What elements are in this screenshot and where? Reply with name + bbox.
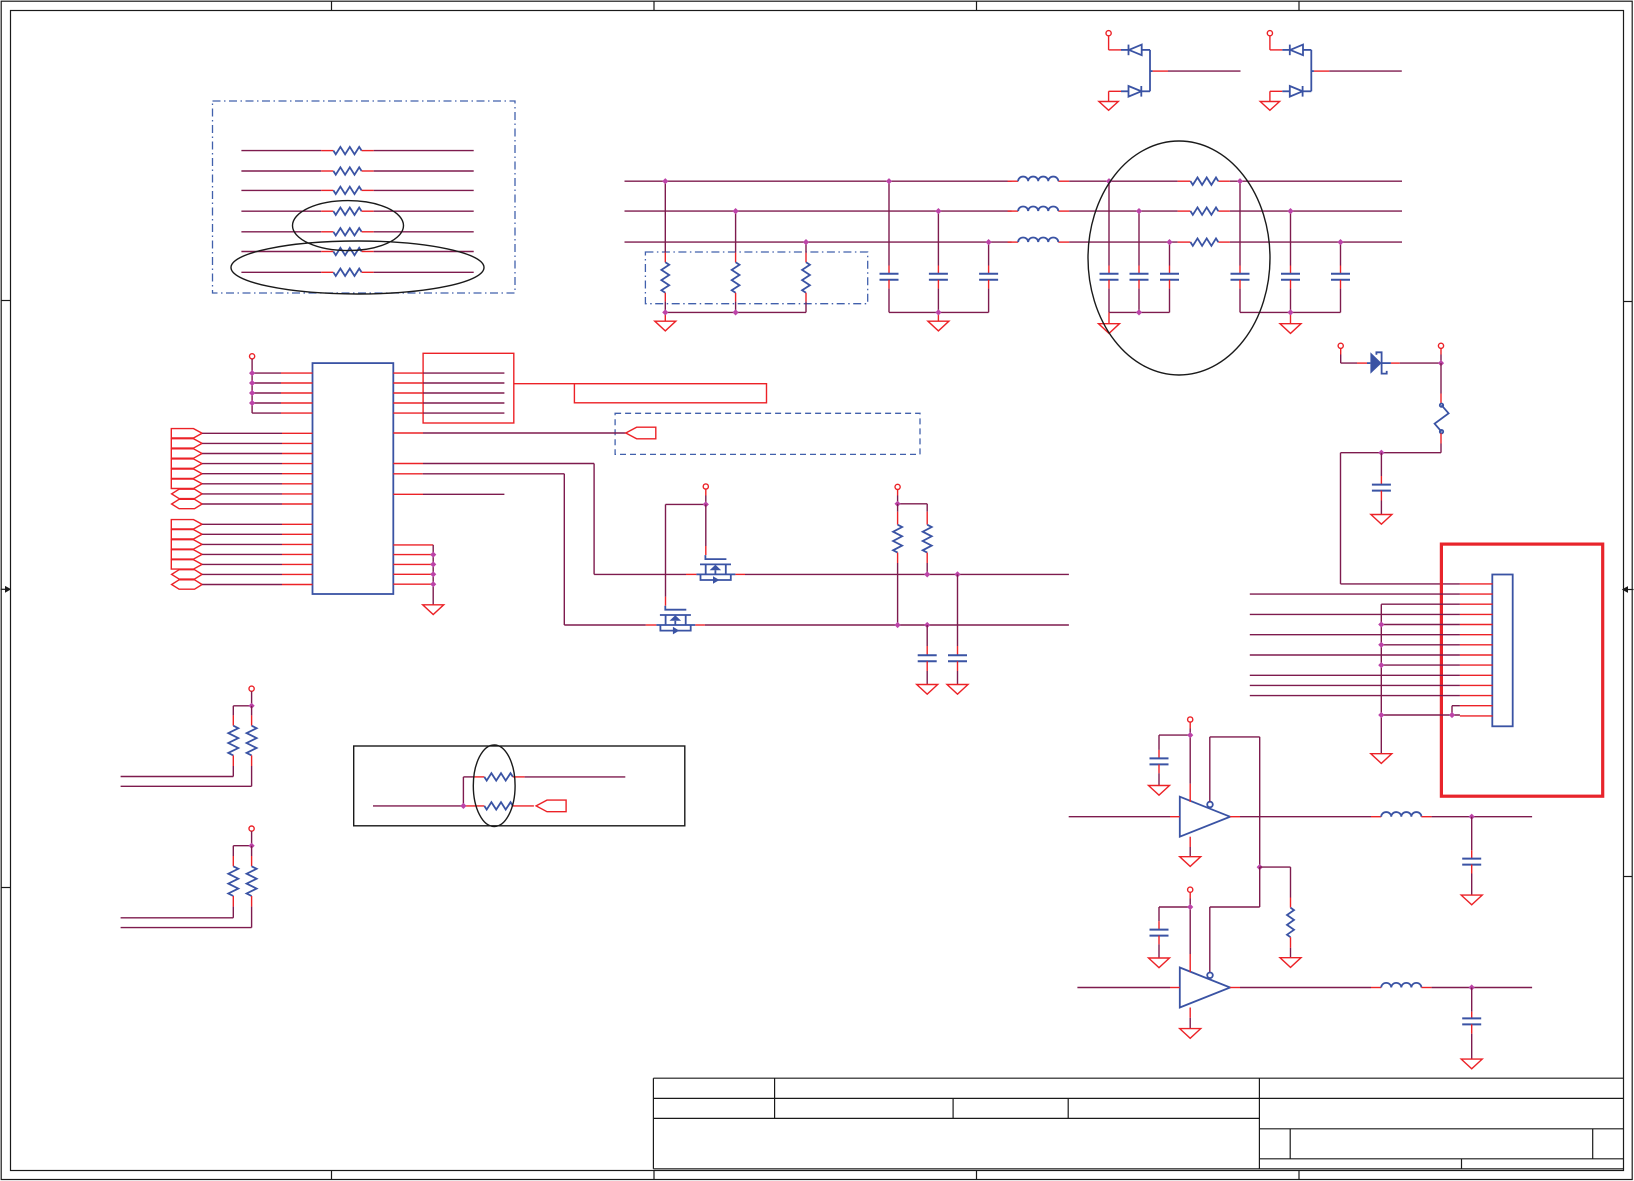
bus entry flag net 2 [171,439,312,448]
resistor R5 [241,228,473,235]
wire pin 10 long [1250,674,1460,676]
wire pin 4 long [1250,613,1460,615]
wire shunt bottom bus [665,311,806,313]
wire option link [462,777,464,806]
wire U3 input [1077,987,1179,989]
wire U1 gnd pin 4 [393,573,433,575]
terminal (pull-up rail) [895,484,900,504]
IC U1 [313,363,394,594]
dash-dot option box (top-left resistor array) [213,101,516,293]
highlight ellipse (rows 6-7) [231,241,484,294]
resistor R17 [121,706,239,777]
terminal (U3 supply) [1188,887,1193,907]
bus entry flag net 15 [172,580,313,589]
wire pin 2 long [1250,593,1460,595]
wire pin 8 long [1250,654,1460,656]
bus entry flag net 6 [171,479,312,488]
resistor R6 [241,248,473,255]
wire U1 left pin 4 [252,402,312,404]
bus entry flag net 1 [171,429,312,438]
red module box (U1 right) [423,353,514,423]
wire pin 9 [1381,664,1460,666]
ground (C13) [1149,786,1170,796]
resistor R16 [923,504,932,575]
terminal (gate drive) [703,484,708,505]
junction dot [703,501,709,507]
bus entry flag net 7 [172,489,313,498]
capacitor C1 [880,181,899,312]
bus entry flag net 4 [171,459,312,468]
dashed net-class box [615,413,920,454]
junction dot [460,803,466,809]
ground (C10) [1371,515,1392,525]
wire bus line 3 [625,241,1403,243]
capacitor C15 [1462,817,1481,895]
capacitor C6 [1160,242,1179,312]
resistor R13 [1191,238,1219,245]
ground (connector riser) [1371,754,1392,764]
resistor R9 [732,211,740,312]
bus entry flag net 5 [171,469,312,478]
wire U1 right pin 5 [393,412,504,414]
junction dot [1469,814,1475,820]
capacitor C4 [1100,181,1119,312]
capacitor C9 [1331,242,1350,312]
wire pin 13/14 tie [1381,706,1460,715]
junction dot [249,703,255,709]
ground (R23) [1280,958,1301,968]
resistor R4 [241,208,473,215]
capacitor C8 [1281,211,1300,312]
capacitor C3 [979,242,998,312]
option outline box [354,746,685,826]
ground (U3) [1180,1008,1201,1039]
ground (C14) [1149,958,1170,968]
terminal (schottky in) [1338,343,1367,363]
terminal (pull-up group 2) [233,826,254,846]
wire cap group A bottom [1109,311,1170,313]
wire cap group B bottom [1240,311,1341,313]
wire U1 pin to Q2 [393,474,646,625]
wire U1 gnd pin 1 [393,544,433,546]
bus entry flag net 10 [171,530,312,539]
ground (C11) [917,685,938,695]
wire U2 feedback [1210,737,1260,867]
wire U3 output [1230,987,1381,989]
wire U1 gnd bus [432,545,434,605]
wire U1 right pin 4 [393,402,504,404]
net flag (left pointing) [626,427,656,439]
resistor R21 [463,773,625,780]
highlight ellipse (rows 4-5) [293,201,404,251]
capacitor C5 [1130,211,1149,312]
ground (C7-C9) [1280,312,1301,333]
wire feedback to U3 [1210,867,1260,972]
wire riser to ground [1380,604,1382,754]
capacitor C16 [1462,988,1481,1060]
wire U3 supply [1159,907,1190,972]
wire option input [373,805,463,807]
right center arrow [1628,589,1634,591]
resistor R22 [463,802,534,809]
wire pin 3 [1381,603,1460,605]
inductor L4 [1381,812,1421,817]
wire U1 left pin 2 [252,382,312,384]
wire L4 out [1421,816,1532,818]
bus entry flag net 3 [171,449,312,458]
wire node [1341,452,1442,454]
ground (C1-C3) [928,312,949,331]
wire U1 right pin 3 [393,392,504,394]
bus entry flag net 14 [172,570,313,579]
bus entry flag net 9 [171,520,312,529]
transistor Q1 [696,555,735,584]
inductor L2 [1018,206,1058,211]
wire U1 pin to flag [393,432,626,434]
resistor R3 [241,187,473,194]
highlight ellipse (pi filter) [1088,141,1270,375]
wire Q1 gate [705,504,707,555]
terminal (U1 top-left supply) [250,354,255,413]
op-amp U3 [1180,968,1230,1008]
module outline (thick red box) [1441,544,1602,796]
resistor R7 [241,269,473,276]
wire U1 left pin 3 [252,392,312,394]
junction dot [1257,864,1263,870]
connector J1 pin leads [1460,584,1493,716]
op-amp U2 [1180,797,1230,837]
capacitor C14 [1150,907,1169,958]
resistor R12 [1191,207,1219,214]
wire Q1 leads [686,573,1069,575]
capacitor C2 [929,211,948,312]
junction dot [249,843,255,849]
ground (shunt resistors) [655,312,676,331]
bus entry flag net 13 [171,560,312,569]
wire U2 output [1230,816,1381,818]
capacitor C7 [1231,181,1250,312]
junction dot [1187,732,1193,738]
junction dot [1469,984,1475,990]
resistor R10 [802,242,810,312]
connector J1 [1492,575,1512,727]
wire U1 gnd pin 3 [393,563,433,565]
terminal (pull-up group 1) [233,686,254,706]
resistor R8 [661,181,669,312]
resistor R23 [1260,867,1294,958]
wire U1 left pin 1 [252,372,312,374]
junction dot [1378,450,1384,456]
wire pin 7 [1381,644,1460,646]
ground (C12) [947,685,968,695]
ground (C16) [1461,1059,1482,1069]
capacitor C12 [948,574,967,684]
dual diode clamp D2 [1260,31,1402,111]
wire U1 right pin 2 [393,382,504,384]
resistor R15 [893,504,902,625]
bus entry flag net 11 [171,540,312,549]
wire cap group bottom [889,311,989,313]
wire pin 11 long [1250,684,1460,686]
wire bus line 2 [625,210,1403,212]
wire gate node [666,504,706,605]
left center arrow [1,588,6,590]
wire pin 12 long [1250,695,1460,697]
resistor R11 [1191,178,1219,185]
resistor R18 [121,706,257,787]
inductor L1 [1018,177,1058,182]
dual diode clamp D1 [1099,31,1241,111]
transistor Q2 [656,606,695,635]
terminal (schottky out) [1438,343,1443,363]
wire U1 pin to Q1 [393,464,686,575]
red label box [514,384,767,403]
junction dots riser [1378,621,1455,718]
wire U1 gnd pin 5 [393,583,433,585]
junction dots (U1 gnd) [430,552,436,588]
inductor L3 [1018,237,1058,242]
net flag (R22) [536,800,566,812]
capacitor C10 [1372,453,1391,515]
wire U1 left pin 5 [252,412,312,414]
wire bus line 1 [625,180,1403,182]
junction dots bus [662,178,1343,315]
bus entry flag net 12 [171,550,312,559]
wire U1 gnd pin 2 [393,554,433,556]
title block [653,1078,1623,1169]
capacitor C13 [1150,735,1169,785]
wire U2 supply [1159,735,1190,802]
wire to connector pin 1 [1341,453,1460,584]
bus entry flag net 8 [172,499,313,508]
junction dot [1187,904,1193,910]
wire Q2 leads [646,624,1069,626]
resistor R14 [1435,363,1449,453]
wire L5 out [1421,987,1532,989]
wire U1 pin stub [393,493,504,495]
junction dots (U1 supply) [249,370,255,406]
wire pin 5 [1381,624,1460,626]
wire rail [898,503,928,505]
inductor L5 [1381,983,1421,988]
ground (U2) [1180,837,1201,867]
ground (C4-C6) [1099,312,1120,333]
ground (C15) [1461,895,1482,905]
dash-dot box around R8-R10 [645,252,867,304]
wire pin 6 long [1250,634,1460,636]
terminal (U2 supply) [1188,717,1193,735]
resistor R1 [241,147,473,154]
capacitor C11 [918,625,937,685]
wire U2 input [1069,816,1180,818]
resistor R19 [121,846,239,918]
resistor R20 [121,846,257,928]
wire U1 right pin 1 [393,372,504,374]
schottky diode D3 [1367,352,1441,374]
junction dot [1438,360,1444,366]
junction dots (rails) [895,571,961,628]
highlight ellipse (option) [473,745,515,827]
resistor R2 [241,167,473,174]
junction dot [895,501,901,507]
ground (U1) [423,605,444,615]
